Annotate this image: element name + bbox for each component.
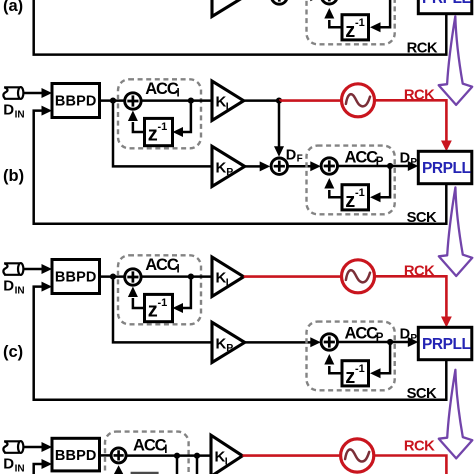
delay z-1 of ACC_P (a) [342,15,369,42]
PRPLL block (b) [418,151,472,183]
oscillator symbol recovered clock (d) [341,439,374,472]
input channel symbol D_IN (d) [3,441,23,453]
accumulator ACC_I dashed box (c) [118,255,201,324]
accumulator ACC_P dashed box (c) [307,322,395,391]
ACC_I feedback node (c) [188,274,194,280]
input channel symbol D_IN (c) [3,263,23,275]
red wire oscillator to PRPLL corner (b) [374,100,446,141]
wire D_IN to BBPD (d) [23,446,42,449]
node D_F branch (b) [276,98,282,104]
svg-text:z: z [345,190,355,212]
wire node to K_P input (b) [113,101,212,167]
svg-text:BBPD: BBPD [55,448,97,464]
svg-text:(b): (b) [3,167,24,185]
wire K_P to D_F summer (b) [245,165,260,168]
phase detector BBPD (b) [52,84,100,118]
arrow from z-1 into ACC_I summer (d) [117,472,120,474]
svg-text:P: P [410,157,417,168]
svg-text:F: F [297,154,303,165]
section (a) feedback wire PRPLL to BBPD (RCK) [34,0,447,55]
ACC_I summer (c) [125,269,141,285]
svg-text:-1: -1 [355,187,365,199]
label D_IN (c) [3,278,24,297]
svg-text:D: D [286,147,296,163]
top edge of z-1 box (d) [131,472,159,474]
node after BBPD (b) [110,98,116,104]
amplifier K_P (b) [212,146,245,186]
wire node to K_P input (c) [113,277,212,343]
ACC_P feedback node (c) [387,339,393,345]
input channel symbol D_IN (b) [3,87,23,99]
svg-text:ACC: ACC [345,148,379,166]
section (a) summing node D_F (partially visible) [271,0,287,4]
ACC_I summer (b) [125,93,141,109]
svg-text:(c): (c) [3,343,23,361]
svg-text:RCK: RCK [404,264,435,280]
svg-text:PRPLL: PRPLL [422,336,471,353]
proportional branch stub down (d) [196,456,199,474]
label D_P (c) [400,326,418,344]
svg-text:D: D [3,102,14,119]
ACC_P feedback wire to z-1 (b) [374,166,390,197]
section (a) PRPLL block (partially visible) [418,0,472,14]
wire K_P to ACC_P summer (c) [245,341,311,344]
svg-text:RCK: RCK [404,88,435,104]
flow arrow from (b) to (c) [439,187,473,276]
delay z-1 of ACC_P (b) [342,185,369,212]
ACC_P summer (c) [321,334,337,350]
section (a) ACC_P summer (partially visible) [321,0,337,4]
amplifier K_P (c) [212,322,245,362]
section (a) wire z-1 output to ACC_P summer [329,20,342,27]
summing node D_F (b) [271,158,287,174]
svg-text:P: P [226,166,233,178]
red wire oscillator to corner (d) [374,456,447,474]
red wire oscillator to PRPLL corner (c) [374,276,446,317]
svg-text:P: P [226,342,233,354]
svg-text:z: z [345,366,355,388]
svg-text:IN: IN [15,464,25,474]
delay z-1 of ACC_P (c) [342,361,369,388]
svg-text:ACC: ACC [133,436,167,454]
accumulator ACC_P dashed box (b) [307,146,395,215]
svg-text:-1: -1 [158,297,168,309]
svg-text:RCK: RCK [404,438,435,454]
svg-text:I: I [177,88,180,100]
svg-text:PRPLL: PRPLL [422,160,471,177]
ACC_I feedback wire to z-1 (b) [177,101,191,132]
svg-text:PRPLL: PRPLL [422,0,471,7]
svg-text:IN: IN [15,286,25,297]
svg-text:z: z [148,300,158,322]
red wire K_I to oscillator (c) [244,275,343,278]
svg-text:-1: -1 [355,363,365,375]
svg-text:ACC: ACC [345,324,379,342]
accumulator ACC_I dashed box (d) [105,432,189,474]
oscillator symbol recovered clock (c) [342,260,375,293]
svg-text:K: K [216,335,227,352]
label ACC_P (b) [345,148,384,168]
wire ACC_I summer to K_I (b) [141,99,212,102]
amplifier K_I (b) [212,81,244,120]
svg-text:ACC: ACC [145,256,179,274]
ACC_I feedback node (b) [188,98,194,104]
wire z-1 output to ACC_P summer (c) [329,366,342,373]
ACC_I summer (d) [111,448,126,463]
proportional branch node (d) [194,453,200,459]
flow arrow from (a) to (b) [439,16,473,105]
svg-text:D: D [3,456,14,473]
svg-text:D: D [400,150,410,166]
ACC_I feedback wire to z-1 (c) [177,277,191,308]
wire K_I to frequency node (b) [244,99,279,102]
wire D_IN to BBPD (b) [23,92,42,95]
flow arrow from (c) to (d) [439,370,473,459]
wire ACC_P summer to PRPLL (c) [337,341,408,344]
label ACC_P (c) [345,324,384,344]
ACC_I feedback node (d) [174,453,180,459]
amplifier K_I (d) [211,435,243,474]
phase detector BBPD (c) [52,260,100,294]
ACC_P feedback wire to z-1 (c) [374,342,390,373]
svg-text:D: D [3,278,14,295]
wire BBPD output (b) [100,99,126,102]
wire BBPD output (d) [100,454,113,457]
oscillator symbol recovered clock (b) [342,84,375,117]
svg-text:P: P [410,333,417,344]
ACC_I feedback stub down (d) [176,456,179,474]
delay z-1 of ACC_I (b) [145,118,173,145]
feedback wire PRPLL to BBPD SCK (b) [34,111,447,224]
amplifier K_I (c) [212,257,244,296]
wire D_IN to BBPD (c) [23,268,42,271]
svg-text:-1: -1 [355,17,365,29]
svg-text:I: I [226,276,229,288]
wire z-1 output to ACC_I summer (b) [133,122,145,132]
wire ACC_P summer to PRPLL (b) [337,165,408,168]
svg-text:z: z [148,124,158,146]
svg-text:-1: -1 [158,121,168,133]
red wire K_I to oscillator (d) [243,454,342,457]
wire D_F summer to ACC_P summer (b) [287,165,311,168]
label ACC_I (b) [145,80,180,100]
label D_P (b) [400,150,418,168]
phase detector BBPD (d) [52,438,100,471]
ACC_P summer (b) [321,158,337,174]
wire ACC_I summer to K_I (d) [125,454,211,457]
svg-text:IN: IN [15,110,25,121]
svg-text:z: z [345,20,355,42]
delay z-1 of ACC_I (c) [145,294,173,321]
section (a) ACC_P feedback wire from output node [374,0,390,27]
PRPLL block (c) [418,327,472,359]
label D_F (b) [286,147,303,164]
svg-text:BBPD: BBPD [55,94,97,110]
svg-text:K: K [216,159,227,176]
label D_IN (d) [3,456,24,474]
svg-text:I: I [226,100,229,112]
label ACC_I (d) [133,436,168,456]
label ACC_I (c) [145,256,180,276]
red wire node to oscillator RCK path (b) [279,99,342,102]
section (a) amplifier K_P (partially visible) [212,0,245,17]
ACC_P feedback node (b) [387,163,393,169]
label D_IN (b) [3,102,24,121]
svg-text:I: I [177,264,180,276]
feedback wire into BBPD (d) [34,464,42,474]
svg-text:BBPD: BBPD [55,270,97,286]
wire ACC_I summer to K_I (c) [141,275,212,278]
node after BBPD (c) [110,274,116,280]
wire node down into D_F summer (b) [278,101,281,147]
svg-text:I: I [225,456,228,468]
section (a) accumulator ACC_P dashed box (partial) [307,0,395,44]
wire z-1 output to ACC_P summer (b) [329,190,342,197]
svg-text:D: D [400,326,410,342]
wire z-1 output to ACC_I summer (c) [133,298,145,308]
wire BBPD output (c) [100,275,126,278]
svg-text:(a): (a) [3,0,23,15]
feedback wire PRPLL to BBPD SCK (c) [34,287,447,400]
svg-text:ACC: ACC [145,80,179,98]
accumulator ACC_I dashed box (b) [118,79,201,148]
